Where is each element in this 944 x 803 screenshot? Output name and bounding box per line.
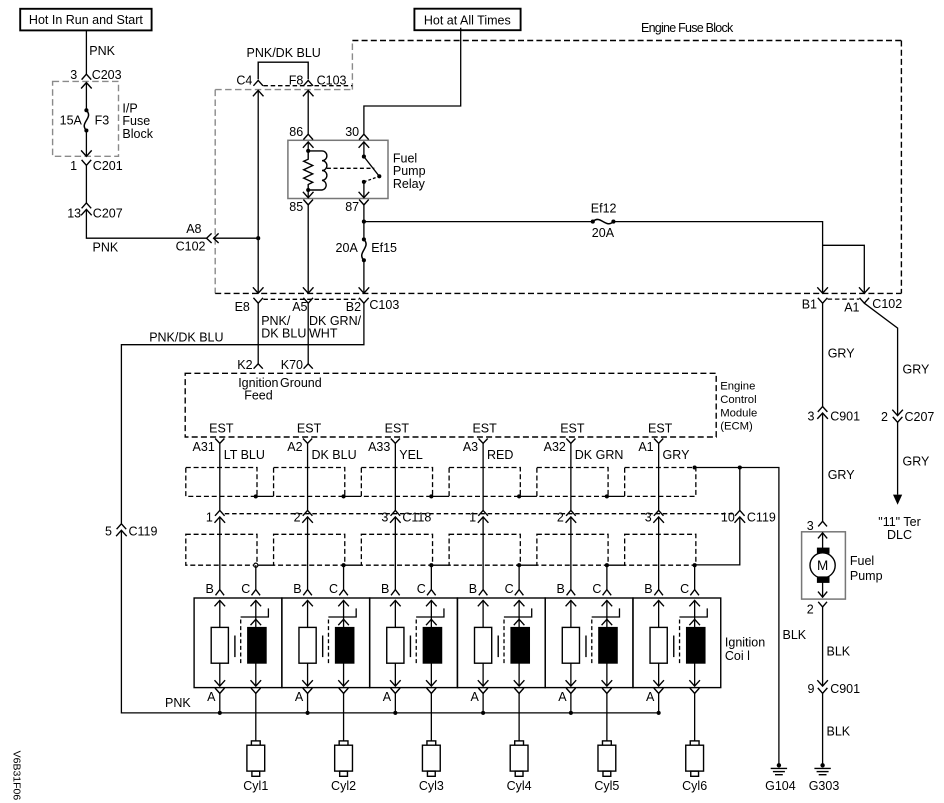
svg-text:85: 85 bbox=[289, 200, 303, 214]
svg-text:B: B bbox=[205, 582, 213, 596]
svg-text:K2: K2 bbox=[237, 358, 252, 372]
svg-text:BLK: BLK bbox=[827, 644, 851, 658]
svg-text:Ground: Ground bbox=[280, 376, 322, 390]
svg-text:A: A bbox=[646, 690, 655, 704]
svg-text:A8: A8 bbox=[186, 222, 201, 236]
svg-text:C: C bbox=[417, 582, 426, 596]
svg-text:B2: B2 bbox=[346, 300, 361, 314]
svg-text:RED: RED bbox=[487, 448, 513, 462]
svg-text:Fuel: Fuel bbox=[850, 554, 874, 568]
svg-text:C103: C103 bbox=[317, 74, 347, 88]
svg-text:C: C bbox=[505, 582, 514, 596]
svg-text:Coi l: Coi l bbox=[725, 649, 750, 663]
svg-text:B: B bbox=[293, 582, 301, 596]
svg-text:EST: EST bbox=[648, 421, 673, 435]
svg-text:A: A bbox=[558, 690, 567, 704]
svg-text:10: 10 bbox=[721, 510, 735, 524]
svg-text:V6B31F06: V6B31F06 bbox=[11, 751, 23, 801]
svg-text:15A: 15A bbox=[60, 113, 83, 127]
svg-text:A: A bbox=[295, 690, 304, 704]
svg-text:C: C bbox=[241, 582, 250, 596]
svg-text:PNK: PNK bbox=[165, 696, 191, 710]
svg-text:PNK/DK BLU: PNK/DK BLU bbox=[247, 46, 321, 60]
svg-text:9: 9 bbox=[808, 682, 815, 696]
svg-text:2: 2 bbox=[557, 510, 564, 524]
svg-text:30: 30 bbox=[345, 125, 359, 139]
svg-text:2: 2 bbox=[294, 510, 301, 524]
svg-text:A2: A2 bbox=[287, 440, 302, 454]
svg-text:PNK: PNK bbox=[89, 44, 115, 58]
svg-text:A31: A31 bbox=[193, 440, 215, 454]
svg-text:A33: A33 bbox=[368, 440, 390, 454]
svg-text:20A: 20A bbox=[336, 241, 359, 255]
svg-text:F3: F3 bbox=[95, 113, 110, 127]
svg-text:PNK: PNK bbox=[93, 241, 119, 255]
svg-text:2: 2 bbox=[881, 410, 888, 424]
svg-text:A: A bbox=[383, 690, 392, 704]
svg-text:G104: G104 bbox=[765, 779, 796, 793]
svg-text:E8: E8 bbox=[235, 300, 250, 314]
svg-text:3: 3 bbox=[808, 409, 815, 423]
svg-text:20A: 20A bbox=[592, 226, 615, 240]
svg-text:C119: C119 bbox=[747, 510, 776, 524]
svg-text:5: 5 bbox=[105, 525, 112, 539]
svg-text:Cyl2: Cyl2 bbox=[331, 779, 356, 793]
svg-text:3: 3 bbox=[645, 510, 652, 524]
svg-text:C103: C103 bbox=[369, 298, 399, 312]
svg-text:C207: C207 bbox=[93, 207, 123, 221]
svg-text:EST: EST bbox=[560, 421, 585, 435]
svg-text:Hot In Run and Start: Hot In Run and Start bbox=[29, 13, 143, 27]
svg-text:Module: Module bbox=[720, 407, 757, 419]
svg-text:B: B bbox=[557, 582, 565, 596]
svg-text:B: B bbox=[381, 582, 389, 596]
svg-text:Feed: Feed bbox=[244, 389, 273, 403]
svg-text:GRY: GRY bbox=[828, 347, 856, 361]
svg-text:C118: C118 bbox=[402, 511, 431, 525]
svg-text:86: 86 bbox=[289, 125, 303, 139]
svg-text:C203: C203 bbox=[92, 68, 122, 82]
svg-text:C207: C207 bbox=[905, 410, 935, 424]
svg-text:GRY: GRY bbox=[903, 455, 931, 469]
svg-text:K70: K70 bbox=[281, 358, 303, 372]
svg-text:A5: A5 bbox=[292, 300, 307, 314]
svg-text:EST: EST bbox=[385, 421, 410, 435]
svg-text:YEL: YEL bbox=[399, 448, 423, 462]
svg-text:Hot at All Times: Hot at All Times bbox=[424, 14, 511, 28]
svg-text:Cyl6: Cyl6 bbox=[682, 779, 707, 793]
svg-text:C102: C102 bbox=[176, 240, 206, 254]
svg-text:BLK: BLK bbox=[827, 725, 851, 739]
svg-text:Ef12: Ef12 bbox=[591, 202, 617, 216]
svg-text:Cyl5: Cyl5 bbox=[594, 779, 619, 793]
svg-text:Relay: Relay bbox=[393, 177, 426, 191]
svg-text:B: B bbox=[469, 582, 477, 596]
svg-text:13: 13 bbox=[67, 207, 81, 221]
svg-text:C: C bbox=[680, 582, 689, 596]
svg-text:C901: C901 bbox=[830, 682, 860, 696]
svg-text:C: C bbox=[592, 582, 601, 596]
svg-text:(ECM): (ECM) bbox=[720, 421, 753, 433]
svg-text:PNK/DK BLU: PNK/DK BLU bbox=[149, 331, 223, 345]
svg-text:F8: F8 bbox=[289, 74, 304, 88]
svg-text:3: 3 bbox=[381, 510, 388, 524]
svg-text:A3: A3 bbox=[463, 440, 478, 454]
svg-text:LT BLU: LT BLU bbox=[224, 448, 265, 462]
svg-text:B1: B1 bbox=[802, 298, 817, 312]
svg-text:A: A bbox=[470, 690, 479, 704]
svg-text:Ef15: Ef15 bbox=[371, 241, 397, 255]
svg-text:C: C bbox=[329, 582, 338, 596]
svg-text:EST: EST bbox=[209, 421, 234, 435]
svg-text:EST: EST bbox=[297, 421, 322, 435]
svg-text:DK BLU: DK BLU bbox=[311, 448, 356, 462]
svg-text:Engine: Engine bbox=[720, 381, 755, 393]
svg-text:B: B bbox=[644, 582, 652, 596]
svg-text:WHT: WHT bbox=[309, 327, 338, 341]
svg-text:EST: EST bbox=[472, 421, 497, 435]
svg-text:Control: Control bbox=[720, 394, 756, 406]
svg-text:M: M bbox=[817, 558, 828, 573]
svg-text:Cyl3: Cyl3 bbox=[419, 779, 444, 793]
svg-text:DK GRN: DK GRN bbox=[575, 448, 624, 462]
svg-text:A1: A1 bbox=[844, 301, 859, 315]
svg-text:DLC: DLC bbox=[887, 528, 912, 542]
svg-text:1: 1 bbox=[70, 159, 77, 173]
svg-text:Ignition: Ignition bbox=[725, 636, 765, 650]
svg-text:87: 87 bbox=[345, 200, 359, 214]
svg-text:1: 1 bbox=[206, 510, 213, 524]
svg-text:3: 3 bbox=[70, 68, 77, 82]
svg-text:C201: C201 bbox=[93, 159, 123, 173]
svg-text:A: A bbox=[207, 690, 216, 704]
svg-text:GRY: GRY bbox=[663, 448, 691, 462]
svg-text:Cyl4: Cyl4 bbox=[507, 779, 532, 793]
svg-text:C102: C102 bbox=[872, 297, 902, 311]
svg-text:1: 1 bbox=[469, 510, 476, 524]
svg-text:C901: C901 bbox=[830, 409, 860, 423]
svg-text:GRY: GRY bbox=[903, 363, 931, 377]
svg-text:Engine Fuse Block: Engine Fuse Block bbox=[641, 21, 734, 35]
svg-text:C4: C4 bbox=[236, 74, 252, 88]
svg-text:BLK: BLK bbox=[783, 628, 807, 642]
svg-text:Block: Block bbox=[122, 127, 153, 141]
svg-text:Cyl1: Cyl1 bbox=[243, 779, 268, 793]
svg-text:GRY: GRY bbox=[828, 468, 856, 482]
svg-text:Pump: Pump bbox=[850, 569, 883, 583]
svg-text:A1: A1 bbox=[638, 440, 653, 454]
svg-text:C119: C119 bbox=[129, 525, 158, 539]
svg-text:DK BLU: DK BLU bbox=[261, 327, 306, 341]
svg-text:2: 2 bbox=[807, 603, 814, 617]
svg-text:G303: G303 bbox=[809, 779, 840, 793]
svg-text:A32: A32 bbox=[544, 440, 566, 454]
